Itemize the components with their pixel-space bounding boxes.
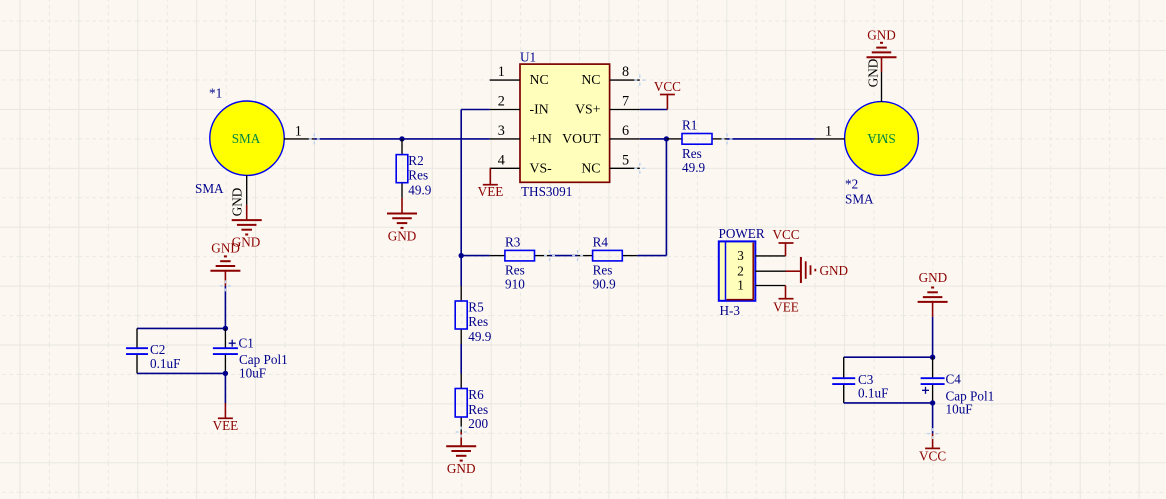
svg-text:Res: Res xyxy=(593,263,613,278)
power port GND below R6 xyxy=(446,432,476,476)
header H-3 POWER body xyxy=(719,241,756,300)
svg-text:NC: NC xyxy=(581,160,600,175)
wire R3 to R4 xyxy=(550,255,578,257)
svg-text:C2: C2 xyxy=(150,342,165,357)
svg-text:GND: GND xyxy=(867,28,896,43)
capacitor C3 xyxy=(832,357,888,403)
capacitor C4 (polarized) xyxy=(921,357,995,416)
pin 1 of SMA *2 xyxy=(815,123,845,139)
power port GND below SMA *1 xyxy=(232,205,262,250)
svg-text:Res: Res xyxy=(408,168,428,183)
junction C4 top xyxy=(930,355,935,360)
wire C1 bottom to C2 bottom xyxy=(137,372,225,374)
svg-text:SMA: SMA xyxy=(867,131,896,146)
connector *1 SMA body xyxy=(210,101,284,175)
svg-text:0.1uF: 0.1uF xyxy=(150,356,180,371)
svg-text:7: 7 xyxy=(622,94,629,110)
svg-text:8: 8 xyxy=(622,64,629,80)
wire U1 pin 7 to VCC xyxy=(640,109,668,111)
wire U1 pin 6 to junction xyxy=(640,138,667,140)
pin 5 (NC) of U1 xyxy=(581,152,639,175)
power port VEE below C1 xyxy=(213,403,239,433)
svg-text:R3: R3 xyxy=(505,234,521,249)
capacitor C2 xyxy=(126,328,180,373)
svg-text:H-3: H-3 xyxy=(720,303,741,318)
power port GND above C4 xyxy=(918,270,948,317)
svg-text:GND: GND xyxy=(919,270,948,285)
designator U1 xyxy=(520,50,536,65)
svg-text:2: 2 xyxy=(498,94,505,110)
svg-text:-IN: -IN xyxy=(530,102,549,117)
svg-text:49.9: 49.9 xyxy=(408,183,431,198)
svg-text:*2: *2 xyxy=(845,177,858,192)
svg-text:VEE: VEE xyxy=(213,418,239,433)
op-amp U1 THS3091 body xyxy=(520,64,610,182)
wire C4 bottom to C3 bottom xyxy=(844,402,933,404)
svg-text:10uF: 10uF xyxy=(946,402,973,417)
wire C4 top to C3 top xyxy=(844,356,933,358)
svg-text:1: 1 xyxy=(295,123,302,139)
wire C4 to VCC xyxy=(932,403,934,434)
pin 2 (-IN) of U1 xyxy=(490,94,549,117)
svg-text:R6: R6 xyxy=(468,387,484,402)
wire C1 to VEE xyxy=(224,373,226,403)
svg-text:49.9: 49.9 xyxy=(468,329,491,344)
pin 1 of H-3 xyxy=(737,278,785,293)
pin 2 GND of SMA *1 (shield) xyxy=(230,175,247,216)
wire C1 top to C2 top xyxy=(137,327,225,329)
junction C1 top xyxy=(223,326,228,331)
power port VCC at H-3 pin 3 xyxy=(772,227,799,256)
wire R5 to R6 xyxy=(460,344,462,374)
svg-text:Res: Res xyxy=(468,402,488,417)
svg-text:THS3091: THS3091 xyxy=(521,184,572,199)
svg-text:5: 5 xyxy=(622,152,629,168)
svg-text:VS+: VS+ xyxy=(575,102,601,117)
svg-text:NC: NC xyxy=(581,72,600,87)
wire feedback node to R3 xyxy=(461,255,490,257)
pin 7 (VS+) of U1 xyxy=(575,94,640,117)
pin 8 (NC) of U1 xyxy=(581,64,639,87)
svg-text:4: 4 xyxy=(498,152,505,168)
label THS3091 xyxy=(521,184,572,199)
label SMA (P1 comment) xyxy=(195,181,224,196)
power port VCC below C4 xyxy=(919,434,946,464)
wire GND to C1 xyxy=(224,286,226,329)
svg-text:C4: C4 xyxy=(946,372,962,387)
svg-text:R5: R5 xyxy=(468,300,484,315)
svg-text:2: 2 xyxy=(737,263,744,278)
connector *2 SMA body xyxy=(845,102,919,176)
svg-text:SMA: SMA xyxy=(845,192,874,207)
svg-text:VCC: VCC xyxy=(919,448,946,463)
power port GND above SMA *2 xyxy=(867,28,897,73)
power port GND below R2 xyxy=(387,198,417,244)
svg-text:3: 3 xyxy=(737,248,744,263)
svg-text:VEE: VEE xyxy=(773,300,799,315)
pin 2 GND of SMA *2 (shield) xyxy=(866,59,882,102)
svg-text:GND: GND xyxy=(447,461,476,476)
svg-text:910: 910 xyxy=(505,277,525,292)
svg-text:10uF: 10uF xyxy=(239,366,266,381)
svg-text:90.9: 90.9 xyxy=(593,277,616,292)
junction at feedback node xyxy=(459,253,464,258)
svg-text:POWER: POWER xyxy=(719,226,765,241)
resistor R3 xyxy=(490,234,550,291)
grid markers xyxy=(220,75,938,440)
capacitor C1 (polarized) xyxy=(213,328,288,380)
svg-text:NC: NC xyxy=(530,72,549,87)
wire feedback node to R5 xyxy=(460,256,462,286)
wire SMA *1 to U1 pin 3 xyxy=(314,138,489,140)
svg-text:R4: R4 xyxy=(593,234,609,249)
svg-text:3: 3 xyxy=(498,123,505,139)
svg-text:GND: GND xyxy=(866,59,881,88)
svg-text:SMA: SMA xyxy=(195,181,224,196)
pin 2 of H-3 xyxy=(737,263,785,278)
svg-text:Res: Res xyxy=(682,146,702,161)
svg-text:1: 1 xyxy=(737,278,744,293)
svg-text:6: 6 xyxy=(622,123,629,139)
label SMA (P2 comment) xyxy=(845,192,874,207)
svg-text:1: 1 xyxy=(498,64,505,80)
svg-text:0.1uF: 0.1uF xyxy=(858,385,888,400)
pin 6 (VOUT) of U1 xyxy=(562,123,640,146)
svg-text:+IN: +IN xyxy=(530,131,552,146)
power port GND above C1 xyxy=(210,241,240,286)
resistor R5 xyxy=(455,286,492,344)
resistor R1 xyxy=(666,117,727,175)
pin 4 (VS-) of U1 xyxy=(490,152,552,175)
svg-text:*1: *1 xyxy=(209,86,222,101)
svg-text:1: 1 xyxy=(825,123,832,139)
svg-text:49.9: 49.9 xyxy=(682,160,705,175)
wire R1 to SMA *2 xyxy=(727,138,815,140)
svg-text:Res: Res xyxy=(468,314,488,329)
pin 3 (+IN) of U1 xyxy=(490,123,552,146)
junction at U1 output xyxy=(664,136,669,141)
pin 1 (NC) of U1 xyxy=(490,64,549,87)
svg-text:VEE: VEE xyxy=(478,184,504,199)
svg-text:GND: GND xyxy=(211,241,240,256)
svg-text:U1: U1 xyxy=(520,50,536,65)
junction at R2 top xyxy=(399,136,404,141)
svg-text:VS-: VS- xyxy=(530,160,553,175)
power port VEE at U1 pin 4 xyxy=(478,168,504,199)
wire R4 to U1 output xyxy=(637,139,666,256)
svg-text:GND: GND xyxy=(820,263,849,278)
junction C4 bottom xyxy=(930,400,935,405)
svg-text:VCC: VCC xyxy=(772,227,799,242)
svg-text:Res: Res xyxy=(505,263,525,278)
wire U1 pin 2 to feedback node xyxy=(461,110,490,256)
designator *2 xyxy=(845,177,858,192)
svg-text:R2: R2 xyxy=(408,153,423,168)
power port VCC at U1 pin 7 xyxy=(654,79,681,109)
resistor R2 xyxy=(396,139,432,198)
resistor R4 xyxy=(578,234,638,291)
svg-text:GND: GND xyxy=(388,229,417,244)
wire GND to C4 xyxy=(932,317,934,357)
svg-text:SMA: SMA xyxy=(232,131,261,146)
svg-text:R1: R1 xyxy=(682,117,697,132)
power port GND (earth) at H-3 pin 2 xyxy=(786,257,849,283)
svg-text:200: 200 xyxy=(468,416,488,431)
designator POWER xyxy=(719,226,765,241)
label H-3 xyxy=(720,303,741,318)
svg-text:C1: C1 xyxy=(239,336,254,351)
pin 3 of H-3 xyxy=(737,248,785,263)
svg-text:GND: GND xyxy=(230,188,245,217)
svg-text:VOUT: VOUT xyxy=(562,131,601,146)
power port VEE at H-3 pin 1 xyxy=(773,286,799,315)
svg-text:VCC: VCC xyxy=(654,79,681,94)
junction C1 bottom xyxy=(223,371,228,376)
designator *1 xyxy=(209,86,222,101)
resistor R6 xyxy=(455,374,488,433)
pin 1 of SMA *1 xyxy=(284,123,314,139)
